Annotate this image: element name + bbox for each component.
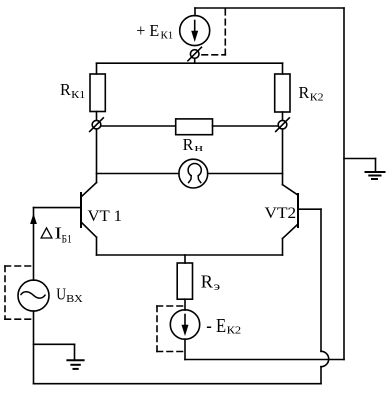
dashed enclosure of -EK2	[157, 306, 185, 352]
label dIb1	[41, 228, 52, 238]
wire bottom node to right bus	[185, 359, 344, 361]
wire VT2 base drop	[320, 209, 322, 351]
svg-text:- E: - E	[206, 315, 226, 337]
svg-text:э: э	[214, 281, 220, 293]
indicator (ohm meter)	[97, 159, 283, 188]
source UBX	[18, 280, 49, 311]
svg-text:К2: К2	[310, 92, 324, 103]
current source +EK1	[180, 8, 210, 46]
wire bottom return	[34, 383, 322, 385]
wire stub terminal to rail	[194, 58, 196, 63]
svg-text:VT 1: VT 1	[88, 208, 123, 225]
ground right	[344, 159, 385, 180]
wire VT1 base column	[33, 208, 35, 281]
svg-text:К1: К1	[71, 90, 85, 101]
resistor RH (load)	[101, 119, 278, 135]
resistor RE	[177, 255, 192, 310]
label ohm symbol	[188, 163, 201, 182]
svg-text:R: R	[299, 83, 310, 102]
wire left column	[96, 129, 98, 183]
terminal X1 (crossed circle) under +EK1	[188, 47, 202, 61]
terminal X3 (crossed circle) under RK2	[276, 118, 290, 132]
svg-text:н: н	[195, 142, 204, 154]
svg-text:К2: К2	[227, 326, 242, 337]
wire VT2 drop below hop	[320, 367, 322, 384]
svg-text:U: U	[56, 284, 66, 303]
wire hop over crossing	[321, 351, 329, 366]
svg-text:+ E: + E	[136, 21, 159, 40]
resistor RK1	[90, 63, 105, 120]
svg-text:К1: К1	[161, 30, 174, 41]
svg-text:ВХ: ВХ	[66, 294, 83, 305]
dashed enclosure of +EK1	[202, 9, 225, 55]
wire right column	[282, 129, 284, 185]
arrow dIb1 on base wire	[30, 214, 37, 225]
ground left	[34, 344, 84, 369]
wire emitter rail	[97, 254, 283, 256]
svg-text:R: R	[201, 272, 213, 292]
svg-text:R: R	[60, 80, 71, 99]
svg-text:VT2: VT2	[265, 205, 297, 222]
wire right vertical bus	[343, 8, 345, 360]
resistor RK2	[275, 63, 290, 120]
current source -EK2	[170, 310, 199, 339]
transistor VT1	[34, 183, 97, 256]
transistor VT2	[283, 185, 322, 255]
terminal X2 (crossed circle) under RK1	[90, 118, 104, 132]
wire -EK2 to bottom node	[184, 339, 186, 359]
dashed enclosure of UBX	[5, 266, 34, 319]
wire UBX to bottom	[33, 311, 35, 384]
wire collector supply rail	[97, 62, 283, 64]
svg-text:Б1: Б1	[62, 232, 72, 246]
svg-text:R: R	[183, 135, 194, 154]
wire top rail from +EK1 to right side	[195, 7, 344, 9]
